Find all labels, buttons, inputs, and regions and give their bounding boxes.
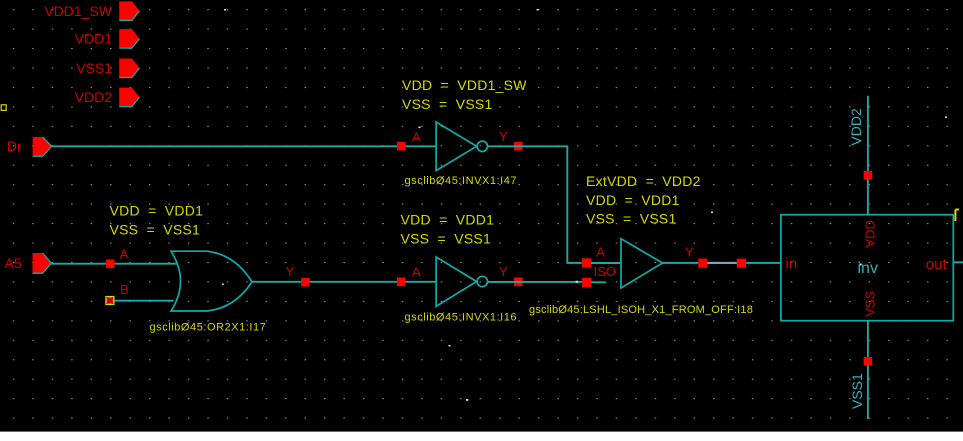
unconnected marker OR2X1 B	[106, 297, 114, 305]
wire LSHL A stub	[591, 262, 621, 264]
terminal square LSHL A	[582, 258, 591, 267]
terminal square VDD2	[864, 171, 873, 180]
wire Dr to INVX1 I47 input	[52, 145, 436, 147]
svg-text:Y: Y	[286, 264, 295, 279]
wire out stub	[953, 261, 963, 263]
svg-text:in: in	[786, 255, 798, 272]
bottom white band	[0, 432, 963, 441]
svg-text:VDD2: VDD2	[75, 89, 113, 105]
svg-text:gsclibØ45:INVX1:I47: gsclibØ45:INVX1:I47	[405, 175, 518, 187]
terminal square VSS1	[864, 357, 873, 366]
svg-text:A: A	[412, 265, 421, 280]
terminal square INVX1 I16 Y	[514, 278, 523, 287]
port VDD1_SW	[44, 1, 139, 20]
svg-text:ISO: ISO	[594, 264, 616, 279]
svg-text:VSS1: VSS1	[849, 373, 865, 409]
svg-text:inv: inv	[858, 260, 878, 277]
svg-text:VDD = VDD1: VDD = VDD1	[401, 212, 495, 228]
svg-text:gsclibØ45:OR2X1:I17: gsclibØ45:OR2X1:I17	[150, 322, 267, 334]
svg-text:VSS = VSS1: VSS = VSS1	[586, 211, 677, 227]
svg-text:VSS1: VSS1	[76, 60, 112, 76]
origin marker	[1, 105, 6, 111]
svg-text:VDD = VDD1: VDD = VDD1	[110, 203, 204, 219]
port VSS1	[76, 59, 139, 78]
or-gate U-OR2X1 I17	[171, 251, 252, 311]
svg-text:gsclibØ45:INVX1:I16: gsclibØ45:INVX1:I16	[405, 312, 518, 324]
junction dot	[576, 281, 578, 283]
inverter U-INVX1 I47	[436, 122, 487, 171]
inv block I1	[781, 215, 953, 321]
terminal square INVX1 I47 Y	[514, 142, 523, 151]
wire VDD2	[867, 96, 869, 215]
svg-text:VDD1: VDD1	[75, 31, 113, 47]
svg-text:A5: A5	[5, 255, 22, 271]
svg-text:Y: Y	[685, 245, 694, 260]
wire LSHL Y to inv block	[663, 262, 782, 264]
inverter U-INVX1 I16	[436, 257, 487, 306]
property labels OR2X1	[110, 203, 204, 238]
svg-text:Y: Y	[499, 264, 508, 279]
terminal square INVX1 I16 A	[397, 278, 406, 287]
svg-text:A: A	[412, 129, 421, 144]
svg-text:VSS: VSS	[863, 290, 878, 316]
svg-text:out: out	[926, 256, 948, 273]
svg-text:VSS = VSS1: VSS = VSS1	[110, 222, 201, 238]
wire stub OR2X1 B input	[110, 300, 174, 302]
wire INVX1 I47 Y to LSHL A	[488, 146, 582, 263]
svg-text:Y: Y	[499, 129, 508, 144]
port Dr	[7, 137, 52, 156]
svg-text:VDD: VDD	[863, 220, 878, 247]
wire A5 to OR2X1 A input	[51, 263, 177, 265]
bright grid dots	[222, 9, 947, 401]
terminal square net Y 1	[698, 259, 707, 268]
wire INVX1 I16 Y to LSHL ISO	[488, 281, 582, 283]
svg-text:VDD = VDD1_SW: VDD = VDD1_SW	[402, 77, 527, 93]
terminal square INVX1 I47 A	[397, 142, 406, 151]
port VDD1	[75, 29, 140, 48]
property labels LSHL I18	[586, 173, 701, 227]
svg-text:VDD2: VDD2	[848, 108, 864, 146]
svg-text:VSS = VSS1: VSS = VSS1	[402, 96, 493, 112]
overlapped net segment	[708, 262, 737, 264]
property labels INVX1 I47	[402, 77, 527, 112]
terminal square net Y 2	[737, 259, 746, 268]
svg-text:gsclibØ45:LSHL_ISOH_X1_FROM_OF: gsclibØ45:LSHL_ISOH_X1_FROM_OFF:I18	[529, 304, 753, 316]
svg-text:VSS = VSS1: VSS = VSS1	[401, 231, 492, 247]
terminal square OR2X1 Y	[301, 278, 310, 287]
wire VSS1	[867, 321, 869, 419]
terminal square LSHL ISO	[582, 278, 591, 287]
svg-text:VDD1_SW: VDD1_SW	[44, 3, 112, 19]
svg-text:ExtVDD = VDD2: ExtVDD = VDD2	[586, 173, 701, 189]
port VDD2	[75, 88, 140, 107]
port A5	[5, 253, 52, 273]
property labels INVX1 I16	[401, 212, 495, 247]
svg-text:Dr: Dr	[7, 138, 22, 154]
svg-text:A: A	[120, 247, 129, 262]
svg-text:VDD = VDD1: VDD = VDD1	[586, 192, 680, 208]
svg-text:B: B	[120, 282, 129, 297]
wire OR2X1 Y to INVX1 I16 input	[252, 281, 436, 283]
wire LSHL ISO stub	[591, 281, 606, 283]
clipped instance label (top-right)	[955, 210, 959, 222]
terminal square OR2X1 A	[106, 260, 115, 269]
buffer U-LSHL I18	[621, 239, 663, 288]
svg-text:A: A	[596, 245, 605, 260]
